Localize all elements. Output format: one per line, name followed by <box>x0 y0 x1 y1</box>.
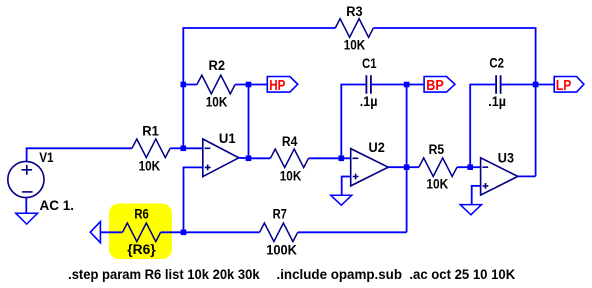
resistor R5 <box>419 158 457 177</box>
resistor R2 <box>197 75 235 94</box>
resistor R3 <box>335 19 373 38</box>
node junction R2 right / HP <box>246 82 252 88</box>
svg-text:.1µ: .1µ <box>360 94 378 109</box>
node junction R5 / U3 minus / C2 <box>467 164 473 170</box>
svg-text:R6: R6 <box>134 207 148 222</box>
port flag BP <box>424 77 455 93</box>
wire top feedback left segment (R3 net) <box>183 28 335 148</box>
highlight box around R6 <box>109 204 172 260</box>
op-amp U2 <box>351 149 389 186</box>
svg-text:10K: 10K <box>206 94 228 109</box>
wire R4 right lead to U2 minus <box>309 157 351 159</box>
svg-text:C1: C1 <box>362 56 377 71</box>
svg-text:100K: 100K <box>266 243 297 258</box>
svg-text:LP: LP <box>556 77 571 94</box>
svg-text:U2: U2 <box>369 140 385 155</box>
wire U1 plus input down to R6/R7 node <box>184 167 203 232</box>
wire U1 output to R4 <box>249 157 271 159</box>
wire top feedback right segment <box>373 28 535 176</box>
voltage source V1 <box>8 161 44 197</box>
wire R6 right lead to node <box>161 231 184 233</box>
U2 plus pin mark <box>353 174 359 180</box>
svg-text:.ac oct 25 10 10K: .ac oct 25 10 10K <box>409 267 515 282</box>
wire R7 right lead to BP node <box>298 231 407 233</box>
V1 minus mark <box>22 191 33 193</box>
wire V1 bottom lead <box>25 198 27 214</box>
wire C2 right to LP node <box>501 84 536 86</box>
wire R1 right lead to U1 minus <box>170 147 203 149</box>
wire U2 output to R5 <box>407 166 419 168</box>
ground of V1 <box>16 213 38 224</box>
U3 plus pin mark <box>483 183 489 189</box>
svg-text:.step param R6 list 10k 20k 30: .step param R6 list 10k 20k 30k <box>68 267 260 282</box>
node junction U2 output <box>404 164 410 170</box>
svg-text:BP: BP <box>426 77 444 94</box>
wire C2 left branch <box>470 85 496 168</box>
resistor R4 <box>270 149 308 168</box>
svg-text:10K: 10K <box>426 177 448 192</box>
svg-text:U3: U3 <box>498 151 514 166</box>
svg-text:10K: 10K <box>280 168 302 183</box>
resistor R7 <box>260 223 298 242</box>
svg-text:{R6}: {R6} <box>127 242 156 257</box>
capacitor C1 <box>366 75 371 94</box>
ground of U3 <box>460 205 481 215</box>
wire BP port stub <box>407 84 425 86</box>
wire R2 left lead <box>183 84 197 86</box>
U3 minus pin mark <box>482 166 488 168</box>
wire HP node down to U1 output <box>248 85 250 159</box>
svg-text:.include opamp.sub: .include opamp.sub <box>277 267 403 282</box>
wire U1 output <box>239 157 249 160</box>
resistor R1 <box>132 139 170 158</box>
svg-text:10K: 10K <box>139 158 161 173</box>
wire arrow to R6 <box>100 231 122 233</box>
U1 plus pin mark <box>205 165 211 171</box>
node junction U1 output <box>246 156 252 162</box>
V1 plus mark <box>22 165 33 175</box>
svg-text:U1: U1 <box>219 131 236 146</box>
node junction R6 / R7 / U1 plus <box>181 230 187 236</box>
U2 minus pin mark <box>353 157 359 159</box>
svg-text:V1: V1 <box>39 150 54 165</box>
node junction U2 minus / C1 <box>339 156 345 162</box>
wire U3 plus to ground <box>472 186 481 205</box>
svg-text:R7: R7 <box>273 206 287 221</box>
wire R2 right lead to HP <box>235 84 267 86</box>
wire C1 right to BP node <box>371 84 407 86</box>
svg-text:.1µ: .1µ <box>488 94 506 109</box>
node junction R1 / U1 minus <box>181 146 187 152</box>
svg-text:R3: R3 <box>346 4 362 19</box>
wire U2 plus to ground <box>342 177 351 196</box>
svg-text:R1: R1 <box>142 123 159 138</box>
port flag LP <box>554 77 584 93</box>
wire BP node vertical to R7 <box>406 85 408 233</box>
svg-text:R5: R5 <box>429 142 445 157</box>
wire C1 left branch <box>341 85 366 159</box>
U1 minus pin mark <box>205 147 211 149</box>
node junction R2 left <box>181 82 187 88</box>
node junction C2 / LP <box>533 82 539 88</box>
capacitor C2 <box>496 75 501 94</box>
svg-text:R4: R4 <box>282 134 298 149</box>
ground of U2 <box>331 195 352 205</box>
op-amp U1 <box>203 139 239 177</box>
wire LP port stub <box>536 84 555 86</box>
svg-text:10K: 10K <box>344 38 366 53</box>
wire U3 output to LP vertical <box>518 175 536 177</box>
wire R5 right lead to U3 minus <box>457 166 481 168</box>
wire V1 to R1 <box>27 148 132 161</box>
svg-text:C2: C2 <box>489 56 504 71</box>
wire U2 output <box>388 166 406 168</box>
svg-text:R2: R2 <box>209 58 226 73</box>
wire node to R7 <box>184 231 260 233</box>
op-amp U3 <box>481 158 518 195</box>
node junction C1 / BP <box>404 82 410 88</box>
resistor R6 <box>123 223 161 242</box>
svg-text:AC 1.: AC 1. <box>40 198 75 213</box>
port arrow at R6 input <box>90 222 100 243</box>
svg-text:HP: HP <box>269 77 285 94</box>
port flag HP <box>267 77 297 93</box>
